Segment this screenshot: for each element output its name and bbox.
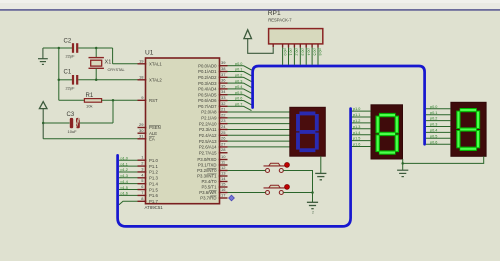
svg-text:28: 28 xyxy=(221,147,226,152)
svg-text:P3.5/T1: P3.5/T1 xyxy=(201,185,217,190)
svg-text:AT89C51: AT89C51 xyxy=(145,205,164,210)
7-segment display DS1 xyxy=(290,107,326,156)
pin 37 P0.2/AD2 xyxy=(198,72,227,80)
svg-text:RST: RST xyxy=(149,98,158,103)
svg-text:P0.6/AD6: P0.6/AD6 xyxy=(198,98,217,103)
wire P2.0 to display DS1 xyxy=(228,111,290,113)
wire gnd vertical xyxy=(58,48,60,100)
svg-text:p0.7: p0.7 xyxy=(235,103,242,107)
svg-text:U1: U1 xyxy=(145,50,154,57)
svg-text:P2.4/A12: P2.4/A12 xyxy=(199,133,217,138)
svg-text:p1.4: p1.4 xyxy=(121,180,128,184)
svg-text:p1.0: p1.0 xyxy=(353,107,360,111)
svg-text:16: 16 xyxy=(221,187,226,192)
svg-text:P0.4/AD4: P0.4/AD4 xyxy=(198,87,217,92)
pin 32 P0.7/AD7 xyxy=(198,101,227,109)
wire P2.6 to display DS1 xyxy=(228,146,290,148)
svg-text:P0.1/AD1: P0.1/AD1 xyxy=(198,69,217,74)
wire p0.6 to DS3 xyxy=(426,140,451,144)
wire SW2-gnd xyxy=(283,192,312,194)
wire to ground G4 xyxy=(402,163,404,170)
svg-text:RP1: RP1 xyxy=(268,10,281,17)
svg-text:9: 9 xyxy=(141,95,144,100)
wire P1.6 to bus xyxy=(119,192,138,196)
pin 17 P3.7/RD xyxy=(200,193,227,201)
wire P0.4 to bus xyxy=(228,85,252,93)
junction displays gnd xyxy=(401,162,404,165)
svg-text:11: 11 xyxy=(221,160,226,165)
wire P1.7 to bus xyxy=(119,201,138,205)
svg-text:p0.4: p0.4 xyxy=(306,49,310,56)
wire P1.5 to bus xyxy=(119,186,138,190)
svg-text:25: 25 xyxy=(221,130,226,135)
wire P0.0 to bus xyxy=(228,62,252,70)
junction R1-C3 xyxy=(112,99,115,102)
wire P3.6-SW2 xyxy=(228,192,266,194)
pin 11 P3.1/TXD xyxy=(198,160,228,168)
svg-text:38: 38 xyxy=(221,66,226,71)
svg-text:18: 18 xyxy=(139,74,144,79)
svg-text:P0.2/AD2: P0.2/AD2 xyxy=(198,75,217,80)
wire P2.2 to display DS1 xyxy=(228,123,290,125)
wire SW1-gnd xyxy=(283,171,312,193)
svg-text:P0.3/AD3: P0.3/AD3 xyxy=(198,81,217,86)
svg-text:XTAL1: XTAL1 xyxy=(149,62,162,67)
junction VCC-C3 xyxy=(42,122,45,125)
pin 12 P3.2/INT0 xyxy=(197,165,227,173)
pin 2 P1.1 xyxy=(138,161,159,169)
svg-text:p0.6: p0.6 xyxy=(430,140,437,144)
wire P0.3 to bus xyxy=(228,79,252,87)
svg-text:P1.0: P1.0 xyxy=(149,158,158,163)
svg-text:10uF: 10uF xyxy=(68,129,78,134)
svg-text:P0.0/AD0: P0.0/AD0 xyxy=(198,63,217,68)
wire P3.2-SW1 xyxy=(228,170,266,172)
svg-text:p1.5: p1.5 xyxy=(353,137,360,141)
svg-text:31: 31 xyxy=(139,133,144,138)
svg-text:P1.2: P1.2 xyxy=(149,170,158,175)
wire p0.3 to DS3 xyxy=(426,123,451,127)
svg-text:P1.1: P1.1 xyxy=(149,164,158,169)
wire DS3 cathode xyxy=(403,156,484,163)
svg-text:27: 27 xyxy=(221,141,226,146)
wire DS1 cathode xyxy=(320,156,322,173)
svg-text:22pF: 22pF xyxy=(66,86,76,91)
pin 5 P1.4 xyxy=(138,178,159,186)
pin 22 P2.1/A9 xyxy=(201,112,227,120)
svg-text:C1: C1 xyxy=(64,70,72,76)
resistor R1 xyxy=(59,93,102,109)
svg-text:p0.4: p0.4 xyxy=(430,129,437,133)
svg-text:22: 22 xyxy=(221,112,226,117)
power terminal VCC1 xyxy=(39,102,47,123)
window top edge xyxy=(0,0,500,3)
junction C2 row xyxy=(58,47,61,50)
svg-text:17: 17 xyxy=(221,193,226,198)
wire P0.5 to bus xyxy=(228,91,252,99)
mcu U1 AT89C51 xyxy=(145,50,220,210)
svg-text:32: 32 xyxy=(221,101,226,106)
svg-text:p0.5: p0.5 xyxy=(430,134,437,138)
svg-text:2: 2 xyxy=(312,211,314,215)
svg-text:14: 14 xyxy=(221,176,226,181)
svg-text:12: 12 xyxy=(221,165,226,170)
svg-text:36: 36 xyxy=(221,78,226,83)
svg-text:p0.1: p0.1 xyxy=(235,68,242,72)
pin RP1.8 xyxy=(318,44,322,65)
pin 9 RST xyxy=(138,95,158,103)
bus P1 bottom xyxy=(118,109,351,227)
svg-text:P2.5/A13: P2.5/A13 xyxy=(199,139,217,144)
wire P2.4 to display DS1 xyxy=(228,134,290,136)
pin 26 P2.5/A13 xyxy=(199,136,228,144)
crystal X1 xyxy=(89,48,125,80)
svg-text:35: 35 xyxy=(221,83,226,88)
wire C1-XTAL2 xyxy=(78,79,137,81)
svg-text:39: 39 xyxy=(221,60,226,65)
wire P2.5 to display DS1 xyxy=(228,140,290,142)
wire C2-XTAL1 net xyxy=(78,48,137,64)
svg-text:P3.7/RD: P3.7/RD xyxy=(200,196,216,201)
pin 34 P0.5/AD5 xyxy=(198,89,227,97)
svg-text:p0.2: p0.2 xyxy=(430,117,437,121)
wire p1.2 to DS2 xyxy=(352,119,371,123)
svg-text:13: 13 xyxy=(221,171,226,176)
svg-text:P0.5/AD5: P0.5/AD5 xyxy=(198,92,217,97)
wire VCC-EA xyxy=(43,123,137,139)
svg-text:p0.6: p0.6 xyxy=(235,97,242,101)
wire P0.6 to bus xyxy=(228,97,252,105)
svg-text:P1.7: P1.7 xyxy=(149,199,158,204)
svg-text:p1.0: p1.0 xyxy=(121,156,128,160)
pin 25 P2.4/A12 xyxy=(199,130,228,138)
svg-text:PSEN: PSEN xyxy=(149,125,161,130)
button SW1 xyxy=(264,163,290,173)
svg-text:ALE: ALE xyxy=(149,131,157,136)
wire p0.4 to DS3 xyxy=(426,129,451,133)
svg-text:P1.3: P1.3 xyxy=(149,176,158,181)
svg-text:p1.3: p1.3 xyxy=(121,174,128,178)
ground G1 xyxy=(38,48,48,64)
svg-text:19: 19 xyxy=(139,58,144,63)
svg-text:P3.0/RXD: P3.0/RXD xyxy=(197,157,216,162)
pin RP1.5 xyxy=(300,44,304,65)
window top strip xyxy=(0,3,500,9)
pin 19 XTAL1 xyxy=(138,58,163,66)
bus P0 top xyxy=(253,66,425,144)
wire p1.5 to DS2 xyxy=(352,137,371,141)
wire P0.2 to bus xyxy=(228,74,252,82)
svg-text:7: 7 xyxy=(141,190,144,195)
svg-text:R1: R1 xyxy=(86,93,94,99)
svg-text:RESPACK-7: RESPACK-7 xyxy=(268,18,292,23)
svg-text:P2.1/A9: P2.1/A9 xyxy=(201,116,217,121)
svg-text:P0.7/AD7: P0.7/AD7 xyxy=(198,104,217,109)
svg-text:P3.1/TXD: P3.1/TXD xyxy=(198,163,217,168)
wire p1.0 to DS2 xyxy=(352,107,371,111)
wire p1.4 to DS2 xyxy=(352,131,371,135)
svg-text:C2: C2 xyxy=(64,39,72,45)
pin 4 P1.3 xyxy=(138,172,159,180)
svg-text:p0.2: p0.2 xyxy=(295,49,299,56)
svg-text:p1.2: p1.2 xyxy=(121,168,128,172)
wire to ground G3 xyxy=(312,193,314,203)
svg-text:p1.6: p1.6 xyxy=(121,192,128,196)
wire p0.0 to DS3 xyxy=(426,105,451,109)
svg-text:10: 10 xyxy=(221,154,226,159)
wire P1.4 to bus xyxy=(119,180,138,184)
wire DS2 cathode xyxy=(402,159,404,163)
svg-text:p0.6: p0.6 xyxy=(318,49,322,56)
wire C3-RST xyxy=(80,100,113,123)
svg-text:p0.0: p0.0 xyxy=(283,49,287,56)
svg-text:X1: X1 xyxy=(105,60,112,66)
pin 6 P1.5 xyxy=(138,184,159,192)
svg-text:P2.2/A10: P2.2/A10 xyxy=(199,121,217,126)
svg-text:22pF: 22pF xyxy=(66,54,76,59)
ground G2 xyxy=(315,173,326,179)
pin 13 P3.3/INT1 xyxy=(197,171,227,179)
svg-text:p0.1: p0.1 xyxy=(430,111,437,115)
svg-text:26: 26 xyxy=(221,136,226,141)
svg-text:3: 3 xyxy=(141,166,144,171)
power terminal VCC2 xyxy=(244,30,273,54)
pin 15 P3.5/T1 xyxy=(201,182,227,190)
pin 31 EA xyxy=(138,133,155,141)
pin 39 P0.0/AD0 xyxy=(198,60,227,68)
junction crystal top xyxy=(95,47,98,50)
svg-text:p1.1: p1.1 xyxy=(353,113,360,117)
svg-text:EA: EA xyxy=(149,137,155,142)
wire p0.1 to DS3 xyxy=(426,111,451,115)
svg-text:P1.5: P1.5 xyxy=(149,187,158,192)
wire P0.1 to bus xyxy=(228,68,252,76)
svg-text:P3.4/T0: P3.4/T0 xyxy=(201,179,217,184)
svg-text:2: 2 xyxy=(141,161,144,166)
svg-text:P1.6: P1.6 xyxy=(149,193,158,198)
7-segment display DS3 xyxy=(451,102,486,156)
junction C1 row xyxy=(58,79,61,82)
svg-text:P2.3/A11: P2.3/A11 xyxy=(199,127,217,132)
svg-text:P3.2/INT0: P3.2/INT0 xyxy=(197,168,217,173)
svg-text:34: 34 xyxy=(221,89,226,94)
wire P1.1 to bus xyxy=(119,162,138,166)
pin 29 PSEN xyxy=(138,122,161,130)
pin 14 P3.4/T0 xyxy=(201,176,227,184)
button SW2 xyxy=(264,185,290,195)
wire p0.2 to DS3 xyxy=(426,117,451,121)
origin marker P3.7 xyxy=(229,195,235,201)
svg-text:P2.0/A8: P2.0/A8 xyxy=(201,110,217,115)
svg-text:p1.5: p1.5 xyxy=(121,186,128,190)
svg-text:30: 30 xyxy=(139,128,144,133)
svg-text:4: 4 xyxy=(141,172,144,177)
svg-text:p0.2: p0.2 xyxy=(235,74,242,78)
pin 8 P1.7 xyxy=(138,196,159,204)
svg-text:P2.7/A15: P2.7/A15 xyxy=(199,150,217,155)
svg-text:1: 1 xyxy=(141,155,144,160)
wire R1-RST xyxy=(102,99,138,101)
wire P1.0 to bus xyxy=(119,156,138,160)
wire p0.5 to DS3 xyxy=(426,134,451,138)
svg-text:p0.0: p0.0 xyxy=(235,62,242,66)
pin 36 P0.3/AD3 xyxy=(198,78,227,86)
7-segment display DS2 xyxy=(371,105,403,159)
pin 24 P2.3/A11 xyxy=(199,124,227,132)
svg-text:P3.6/WR: P3.6/WR xyxy=(199,190,216,195)
pin 23 P2.2/A10 xyxy=(199,118,228,126)
svg-text:p0.3: p0.3 xyxy=(430,123,437,127)
ground G3 xyxy=(307,202,318,214)
capacitor C1 xyxy=(59,70,78,91)
pin 38 P0.1/AD1 xyxy=(198,66,227,74)
wire P2.1 to display DS1 xyxy=(228,117,290,119)
svg-text:15: 15 xyxy=(221,182,226,187)
svg-text:10k: 10k xyxy=(86,104,92,109)
pin 7 P1.6 xyxy=(138,190,159,198)
svg-text:C3: C3 xyxy=(67,112,75,118)
pin 35 P0.4/AD4 xyxy=(198,83,227,91)
svg-text:XTAL2: XTAL2 xyxy=(149,78,162,83)
pin 16 P3.6/WR xyxy=(199,187,227,195)
pin RP1.7 xyxy=(312,44,316,65)
svg-text:p0.3: p0.3 xyxy=(301,49,305,56)
pin 21 P2.0/A8 xyxy=(201,107,227,115)
svg-text:33: 33 xyxy=(221,95,226,100)
pin RP1.6 xyxy=(306,44,310,65)
pin RP1.4 xyxy=(294,44,298,65)
capacitor C2 xyxy=(64,39,79,59)
wire p1.3 to DS2 xyxy=(352,125,371,129)
wire gnd-C2 xyxy=(43,47,72,49)
junction SW node xyxy=(311,191,314,194)
pin 30 ALE xyxy=(138,128,158,136)
pin 1 P1.0 xyxy=(138,155,159,163)
resistor pack RP1 xyxy=(268,10,323,44)
capacitor C3 xyxy=(43,112,80,134)
wire p1.1 to DS2 xyxy=(352,113,371,117)
pin 27 P2.6/A14 xyxy=(199,141,228,149)
svg-text:p0.5: p0.5 xyxy=(312,49,316,56)
wire P0.7 to bus xyxy=(228,103,252,111)
wire P1.3 to bus xyxy=(119,174,138,178)
svg-text:24: 24 xyxy=(221,124,226,129)
svg-text:6: 6 xyxy=(141,184,144,189)
pin 10 P3.0/RXD xyxy=(197,154,227,162)
svg-text:p0.3: p0.3 xyxy=(235,79,242,83)
svg-text:8: 8 xyxy=(141,196,144,201)
svg-text:P2.6/A14: P2.6/A14 xyxy=(199,145,217,150)
svg-text:5: 5 xyxy=(141,178,144,183)
pin 3 P1.2 xyxy=(138,166,159,174)
svg-text:p1.6: p1.6 xyxy=(353,143,360,147)
pin 18 XTAL2 xyxy=(138,74,163,82)
pin RP1.1 xyxy=(272,44,274,47)
svg-text:p0.4: p0.4 xyxy=(235,85,242,89)
window top border line xyxy=(0,9,500,11)
pin 33 P0.6/AD6 xyxy=(198,95,227,103)
svg-text:37: 37 xyxy=(221,72,226,77)
ground G4 xyxy=(397,170,408,176)
svg-text:21: 21 xyxy=(221,107,226,112)
svg-text:p0.5: p0.5 xyxy=(235,91,242,95)
svg-text:P1.4: P1.4 xyxy=(149,181,158,186)
svg-text:p0.1: p0.1 xyxy=(289,49,293,56)
svg-text:p1.3: p1.3 xyxy=(353,125,360,129)
svg-text:P3.3/INT1: P3.3/INT1 xyxy=(197,174,217,179)
pin RP1.2 xyxy=(283,44,287,65)
wire P2.3 to display DS1 xyxy=(228,128,290,130)
svg-text:p1.1: p1.1 xyxy=(121,162,128,166)
svg-text:p1.2: p1.2 xyxy=(353,119,360,123)
svg-text:p1.4: p1.4 xyxy=(353,131,360,135)
pin 28 P2.7/A15 xyxy=(199,147,228,155)
svg-text:29: 29 xyxy=(139,122,144,127)
svg-text:23: 23 xyxy=(221,118,226,123)
svg-text:CRYSTAL: CRYSTAL xyxy=(108,68,125,72)
wire p1.6 to DS2 xyxy=(352,143,371,147)
pin RP1.3 xyxy=(289,44,293,65)
wire P1.2 to bus xyxy=(119,168,138,172)
svg-text:p0.0: p0.0 xyxy=(430,105,437,109)
junction crystal bottom xyxy=(95,79,98,82)
